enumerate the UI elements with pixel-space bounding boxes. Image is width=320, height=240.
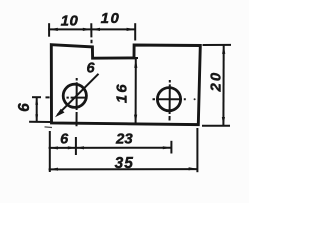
arrow up at 20 top [222,45,225,54]
hole H1 extension tick [75,137,77,155]
left dimension 6 line [36,97,38,122]
arrow down at 20 bottom [222,117,225,126]
arrow right-out at 35 right [189,167,197,170]
left dimension 6 bottom extension [29,121,50,123]
svg-text:16: 16 [114,82,131,103]
notch bottom extension stub [133,57,138,59]
arrow left-out at 23 left [76,146,84,149]
top dim tick right [134,23,136,40]
arrow up at 16 top [134,59,137,68]
right dimension 20 extension bottom [202,125,230,127]
svg-text:10: 10 [61,12,79,29]
arrow left-out at x49 [49,28,58,31]
hole H2 circle [157,88,180,111]
bottom left extension tick long [49,131,51,172]
hole H1 centerline vertical [76,78,78,126]
arrow left-out at x91.5 [92,28,100,31]
hole H1 circle [63,84,86,107]
svg-text:35: 35 [115,155,134,172]
svg-text:23: 23 [115,131,133,148]
right dimension 20 line [222,45,224,126]
arrow down at left6 bottom [35,114,38,121]
arrow left-out at bottom6 left [50,146,58,149]
svg-text:20: 20 [207,71,224,93]
right extension tick down from plate corner [196,128,198,172]
bottom row1 dimension line (6,23) [49,147,172,149]
hole H1 centerline horizontal [46,96,87,98]
hole H2 centerline vertical [169,80,171,121]
leader line for hole diameter 6 [58,74,99,115]
top dimension line (10,10) [48,28,135,30]
middle dimension 16 line [135,59,137,124]
scan speckle dot [194,98,196,100]
right dimension 20 extension top [203,44,232,46]
arrow down at 16 bottom [134,115,137,124]
arrow right-out at bottom6 right [68,146,76,149]
arrow right-out at 23 right [163,146,171,149]
arrow right-out at x135 [127,28,135,31]
top dim tick left [48,23,50,37]
svg-text:6: 6 [60,131,69,147]
arrow up at left6 top [35,97,38,104]
bottom row2 dimension line 35 [49,168,198,170]
svg-text:6: 6 [16,103,33,112]
svg-text:10: 10 [101,10,121,27]
left dimension 6 top tick [32,96,41,98]
arrow left-out at 35 left [50,168,58,171]
arrow right-out at x91 [83,28,91,31]
bottom-left corner overshoot stroke [45,126,53,129]
plate outline with notch [51,45,200,125]
leader arrowhead [55,109,65,118]
hole H2 centerline horizontal [153,98,186,100]
svg-text:6: 6 [86,60,95,76]
hole H2 extension tick [170,141,172,154]
top dim tick middle [90,23,92,43]
